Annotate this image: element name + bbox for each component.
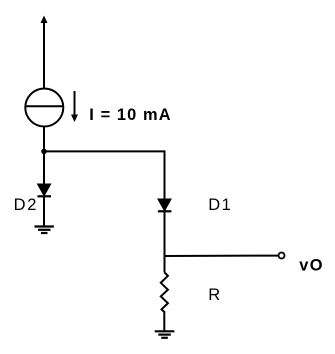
wire (down to D1 anode) <box>164 150 166 199</box>
ground (left, under D2) <box>34 227 54 234</box>
wire (node B down to resistor) <box>164 256 166 273</box>
svg-text:I = 10 mA: I = 10 mA <box>89 106 171 124</box>
node B / wire to output terminal <box>165 255 279 257</box>
wire (resistor to ground) <box>163 311 165 331</box>
resistor R <box>161 273 168 313</box>
wire (D1 cathode to node B) <box>164 211 166 256</box>
wire (node A to D1 branch, horizontal) <box>44 150 165 152</box>
current direction arrow <box>71 91 78 122</box>
diode D2 <box>38 184 52 196</box>
wire (D2 cathode to ground) <box>43 196 45 226</box>
wire (top supply lead with up arrow) <box>41 16 48 90</box>
node A (junction dot) <box>41 149 47 155</box>
wire (current source to node A) <box>43 127 45 152</box>
current source I1 <box>25 89 63 127</box>
svg-text:D1: D1 <box>208 196 232 214</box>
terminal vO (open circle) <box>279 253 285 259</box>
diode D1 <box>158 199 172 211</box>
ground (bottom, under R) <box>155 331 175 338</box>
svg-text:R: R <box>208 286 220 304</box>
wire (node A to D2 anode) <box>43 151 45 184</box>
svg-text:vO: vO <box>299 257 324 275</box>
svg-text:D2: D2 <box>14 196 39 214</box>
